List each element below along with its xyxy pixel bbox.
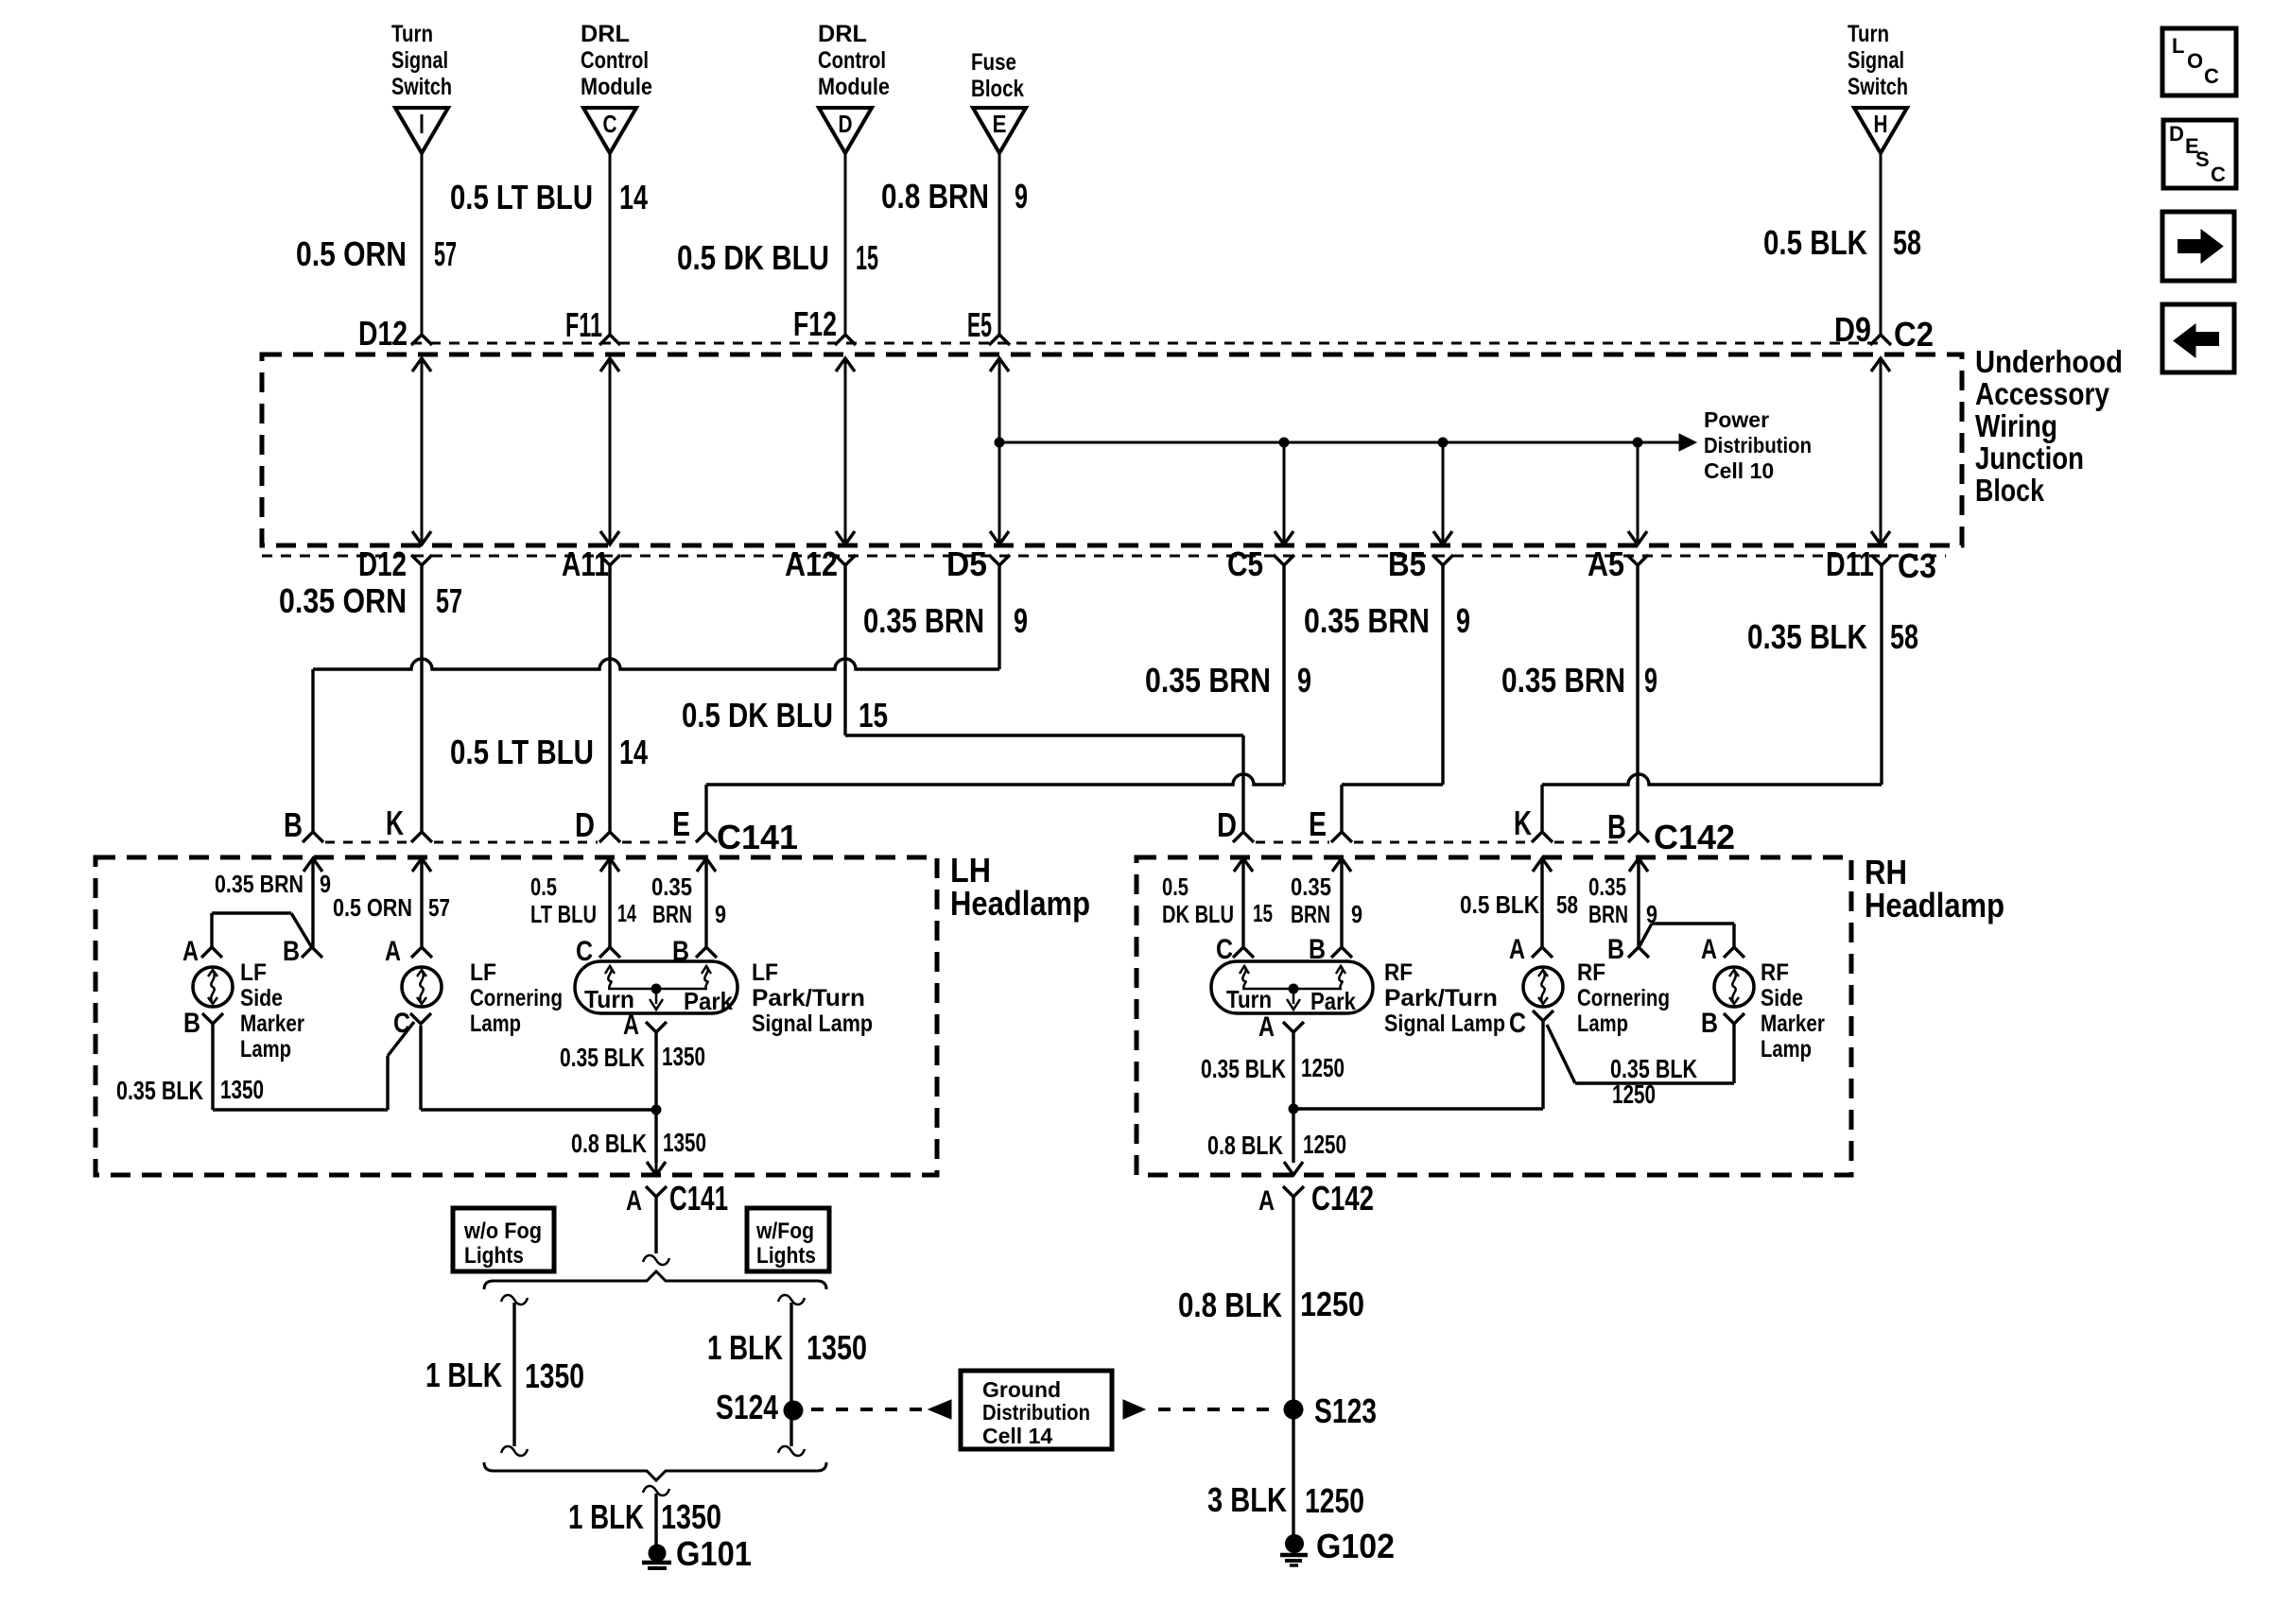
svg-text:14: 14 [619,178,648,216]
svg-text:Block: Block [971,76,1024,102]
svg-text:Wiring: Wiring [1975,408,2057,443]
svg-text:0.35: 0.35 [1588,872,1626,901]
svg-text:Accessory: Accessory [1975,376,2110,411]
svg-text:RF: RF [1577,959,1605,986]
svg-text:Park: Park [684,987,733,1015]
svg-text:Lights: Lights [756,1243,816,1269]
svg-text:E5: E5 [967,305,992,344]
svg-text:0.5 ORN: 0.5 ORN [333,893,412,922]
svg-text:C: C [393,1008,410,1039]
svg-text:F12: F12 [793,304,837,343]
svg-text:C141: C141 [717,818,798,856]
svg-text:C: C [1216,934,1233,965]
svg-text:K: K [1514,803,1532,842]
svg-text:0.35 BLK: 0.35 BLK [1747,617,1867,656]
svg-text:0.8 BLK: 0.8 BLK [1207,1131,1283,1160]
svg-text:Module: Module [818,74,890,100]
svg-text:B: B [1607,934,1624,965]
svg-text:C5: C5 [1227,544,1263,583]
svg-text:0.8 BLK: 0.8 BLK [571,1129,647,1158]
svg-text:1250: 1250 [1301,1053,1345,1082]
svg-text:Fuse: Fuse [971,49,1016,76]
svg-text:1350: 1350 [807,1328,867,1367]
svg-text:A: A [1258,1011,1275,1043]
svg-text:Park: Park [1310,987,1356,1015]
svg-text:B: B [183,1008,200,1039]
svg-text:0.35 BLK: 0.35 BLK [1201,1054,1286,1083]
svg-text:58: 58 [1556,890,1578,919]
svg-text:0.5 DK BLU: 0.5 DK BLU [682,696,833,734]
svg-text:D: D [575,805,595,844]
svg-text:9: 9 [1351,900,1362,928]
svg-text:15: 15 [1253,899,1273,927]
svg-text:A: A [1258,1185,1275,1217]
svg-text:57: 57 [428,893,450,922]
svg-text:1350: 1350 [661,1497,721,1536]
svg-text:0.35: 0.35 [651,872,692,901]
svg-text:14: 14 [617,899,636,927]
svg-text:F11: F11 [565,305,602,344]
svg-text:0.8 BLK: 0.8 BLK [1178,1286,1282,1324]
svg-text:Signal: Signal [391,47,448,74]
svg-text:0.5: 0.5 [530,872,557,901]
svg-text:9: 9 [1015,177,1028,216]
svg-text:w/o Fog: w/o Fog [463,1218,542,1244]
svg-text:9: 9 [1297,661,1311,700]
svg-text:Park/Turn: Park/Turn [1384,985,1498,1011]
svg-text:Junction: Junction [1975,441,2084,475]
svg-text:B: B [283,936,300,967]
svg-text:1350: 1350 [662,1042,705,1071]
svg-text:Lamp: Lamp [1761,1036,1812,1063]
svg-text:0.35 BRN: 0.35 BRN [1145,661,1271,700]
svg-text:D12: D12 [358,544,407,583]
svg-text:C: C [603,110,617,138]
svg-text:1250: 1250 [1300,1285,1364,1323]
svg-text:Signal Lamp: Signal Lamp [1384,1011,1505,1037]
svg-text:0.5 DK BLU: 0.5 DK BLU [677,238,829,277]
svg-text:L: L [2172,34,2184,58]
svg-text:1250: 1250 [1305,1481,1364,1520]
svg-text:BRN: BRN [1291,900,1330,928]
svg-text:D: D [1217,805,1237,844]
svg-text:1350: 1350 [525,1356,584,1395]
svg-text:LT BLU: LT BLU [530,900,597,928]
svg-text:O: O [2187,49,2203,73]
svg-text:0.35 BLK: 0.35 BLK [560,1043,645,1072]
svg-text:DRL: DRL [581,21,630,47]
svg-text:1 BLK: 1 BLK [425,1356,502,1394]
svg-text:Lamp: Lamp [1577,1011,1628,1037]
svg-text:3 BLK: 3 BLK [1207,1480,1287,1519]
svg-text:9: 9 [1644,661,1657,700]
svg-text:1350: 1350 [220,1075,264,1104]
svg-text:0.35 BRN: 0.35 BRN [215,870,304,898]
svg-text:A: A [1509,934,1525,965]
svg-text:Headlamp: Headlamp [1865,886,2004,924]
svg-text:G101: G101 [676,1534,752,1573]
svg-text:Lamp: Lamp [240,1036,291,1063]
svg-text:1250: 1250 [1303,1130,1346,1159]
svg-text:B: B [1607,807,1626,846]
svg-text:15: 15 [856,238,878,277]
svg-text:K: K [386,803,404,842]
svg-text:LF: LF [752,959,778,986]
svg-text:0.35 BRN: 0.35 BRN [1501,661,1625,700]
svg-text:Cell 14: Cell 14 [982,1424,1052,1448]
svg-text:Side: Side [1761,985,1803,1011]
svg-text:D12: D12 [358,314,408,353]
svg-text:A: A [623,1010,639,1041]
svg-text:C: C [2204,64,2219,88]
svg-text:B5: B5 [1388,544,1426,583]
svg-text:0.35 ORN: 0.35 ORN [279,581,407,620]
svg-text:D5: D5 [946,544,987,583]
svg-text:LF: LF [240,959,267,986]
svg-text:Cornering: Cornering [470,985,563,1011]
svg-text:Cell 10: Cell 10 [1704,458,1774,483]
svg-text:Ground: Ground [982,1377,1061,1402]
svg-text:S123: S123 [1314,1391,1377,1430]
svg-text:Park/Turn: Park/Turn [752,985,865,1011]
svg-text:0.5: 0.5 [1162,872,1189,901]
svg-text:Control: Control [581,47,649,74]
svg-text:Turn: Turn [1848,21,1889,47]
svg-text:Lights: Lights [464,1243,524,1269]
svg-text:9: 9 [320,870,331,898]
svg-text:Marker: Marker [1761,1011,1825,1037]
svg-text:LF: LF [470,959,496,986]
svg-text:E: E [1309,804,1327,843]
svg-text:DRL: DRL [818,21,867,47]
svg-text:BRN: BRN [1588,900,1628,928]
svg-text:A: A [182,936,199,967]
svg-text:Headlamp: Headlamp [950,884,1090,923]
svg-text:Distribution: Distribution [1704,433,1812,458]
svg-text:0.5 BLK: 0.5 BLK [1460,890,1539,919]
svg-text:C142: C142 [1654,818,1735,856]
svg-text:C2: C2 [1894,315,1934,354]
svg-text:1250: 1250 [1612,1080,1656,1109]
svg-text:0.5 BLK: 0.5 BLK [1763,223,1867,262]
svg-text:C: C [2211,163,2226,186]
svg-text:1 BLK: 1 BLK [568,1497,644,1536]
svg-text:A: A [626,1185,642,1217]
svg-text:1 BLK: 1 BLK [707,1328,783,1367]
svg-text:Underhood: Underhood [1975,344,2123,379]
svg-text:Signal: Signal [1848,47,1904,74]
svg-text:0.5 ORN: 0.5 ORN [296,234,407,273]
svg-text:9: 9 [1456,601,1470,640]
svg-text:E: E [672,804,690,843]
svg-text:D: D [839,110,853,138]
svg-text:Control: Control [818,47,886,74]
svg-text:Signal Lamp: Signal Lamp [752,1011,873,1037]
svg-text:E: E [993,110,1007,138]
svg-text:S124: S124 [716,1388,778,1426]
svg-text:A5: A5 [1588,544,1624,583]
svg-text:Power: Power [1704,407,1769,432]
svg-text:C3: C3 [1898,546,1936,585]
svg-text:BRN: BRN [652,900,692,928]
svg-text:S: S [2195,147,2210,171]
svg-text:B: B [284,805,303,844]
svg-text:Turn: Turn [1226,985,1272,1013]
svg-text:Cornering: Cornering [1577,985,1670,1011]
svg-text:A: A [1701,934,1717,965]
svg-text:0.35 BLK: 0.35 BLK [116,1076,203,1105]
svg-text:D: D [2169,122,2184,146]
svg-text:RF: RF [1761,959,1789,986]
svg-text:Lamp: Lamp [470,1011,521,1037]
svg-text:C: C [1509,1008,1526,1039]
svg-text:0.35 BRN: 0.35 BRN [863,601,984,640]
svg-text:58: 58 [1890,617,1918,656]
svg-text:0.8 BRN: 0.8 BRN [881,177,989,216]
svg-text:0.5 LT BLU: 0.5 LT BLU [450,733,594,771]
svg-text:w/Fog: w/Fog [755,1218,814,1244]
svg-text:1350: 1350 [663,1128,706,1157]
svg-text:RF: RF [1384,959,1413,986]
svg-text:0.5 LT BLU: 0.5 LT BLU [450,178,593,216]
svg-text:Module: Module [581,74,652,100]
svg-text:0.35: 0.35 [1291,872,1331,901]
svg-text:H: H [1874,110,1888,138]
svg-text:G102: G102 [1316,1527,1395,1565]
svg-text:Switch: Switch [1848,74,1908,100]
svg-text:Block: Block [1975,473,2045,508]
svg-text:0.35 BRN: 0.35 BRN [1304,601,1430,640]
svg-text:9: 9 [715,900,726,928]
svg-text:15: 15 [859,696,888,734]
svg-text:Switch: Switch [391,74,452,100]
svg-text:14: 14 [619,733,648,771]
svg-text:Turn: Turn [391,21,433,47]
svg-text:A11: A11 [562,544,609,583]
svg-text:57: 57 [436,581,462,620]
svg-text:57: 57 [434,234,457,273]
svg-text:A12: A12 [785,544,838,583]
svg-text:58: 58 [1893,223,1921,262]
svg-text:DK BLU: DK BLU [1162,900,1234,928]
svg-text:D11: D11 [1826,544,1874,583]
svg-text:A: A [385,936,401,967]
svg-text:9: 9 [1014,601,1028,640]
svg-text:C142: C142 [1311,1179,1374,1218]
svg-text:C141: C141 [669,1179,728,1218]
svg-text:Side: Side [240,985,283,1011]
svg-text:Distribution: Distribution [982,1400,1090,1425]
svg-text:B: B [1701,1008,1718,1039]
svg-text:Marker: Marker [240,1011,304,1037]
